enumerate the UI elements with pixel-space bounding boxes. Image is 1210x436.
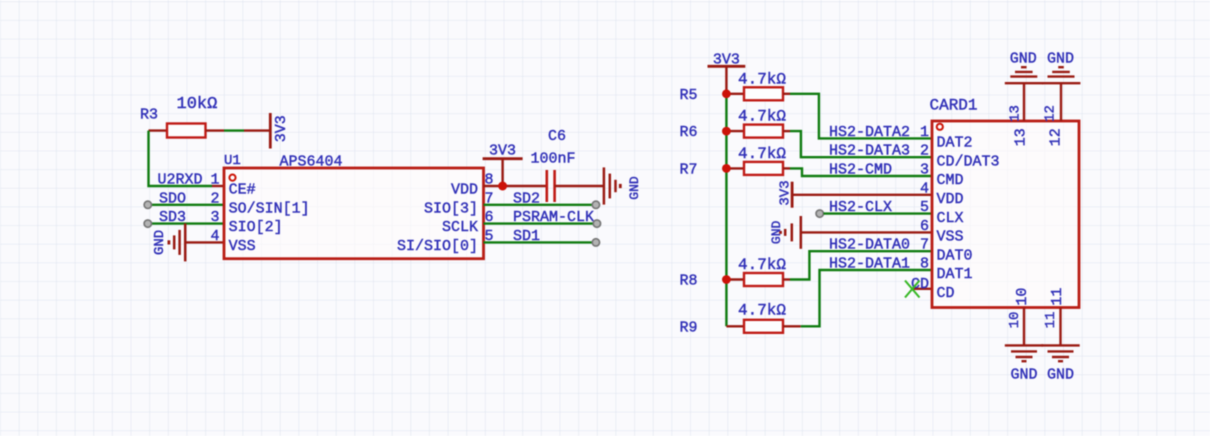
ground symbol below pin 11: [1041, 345, 1079, 383]
svg-text:SIO[3]: SIO[3]: [424, 200, 478, 217]
svg-text:R3: R3: [140, 107, 158, 124]
svg-text:R7: R7: [679, 161, 697, 178]
ground symbol above pin 12 (inverted): [1042, 51, 1080, 84]
svg-text:GND: GND: [627, 176, 642, 200]
svg-text:11: 11: [1043, 312, 1059, 329]
U1 pin number 4: [210, 228, 219, 245]
svg-text:R9: R9: [679, 319, 697, 336]
svg-text:CD/DAT3: CD/DAT3: [937, 153, 1000, 170]
svg-text:10kΩ: 10kΩ: [177, 95, 218, 114]
svg-text:8: 8: [920, 256, 929, 273]
CARD1 pin number 6: [920, 218, 929, 235]
wire CD pin stub: [913, 288, 932, 290]
capacitor C6 plates: [547, 170, 555, 202]
svg-text:12: 12: [1048, 128, 1065, 146]
CARD1 pin name VSS: [937, 229, 964, 246]
svg-text:DAT0: DAT0: [937, 247, 973, 264]
resistor R6 value: [738, 108, 786, 126]
CARD1 pin number 1: [920, 124, 929, 141]
net label U2RXD: [158, 172, 203, 189]
CARD1 pin number 2: [920, 143, 929, 160]
svg-text:4.7kΩ: 4.7kΩ: [738, 145, 786, 163]
svg-text:4: 4: [920, 180, 929, 197]
svg-text:4.7kΩ: 4.7kΩ: [738, 70, 786, 88]
svg-text:2: 2: [210, 190, 219, 207]
CARD1 pin number 11 (rotated): [1043, 312, 1059, 329]
svg-text:R6: R6: [679, 124, 697, 141]
resistor R8 value: [738, 256, 786, 274]
resistor R6 body: [744, 125, 783, 138]
svg-text:2: 2: [920, 143, 929, 160]
wire R6 to HS2-DATA3: [783, 131, 932, 157]
svg-text:CMD: CMD: [937, 172, 964, 189]
svg-text:SI/SIO[0]: SI/SIO[0]: [397, 238, 478, 255]
svg-text:5: 5: [920, 199, 929, 216]
svg-text:CD: CD: [937, 285, 955, 302]
CARD1 pin name 10 inside (rotated): [1014, 288, 1031, 306]
svg-text:CLX: CLX: [937, 210, 964, 227]
resistor R9 value: [738, 302, 786, 320]
svg-text:GND: GND: [1010, 51, 1037, 68]
svg-text:11: 11: [1049, 288, 1066, 306]
resistor R8 designator: [679, 273, 697, 290]
net label SD2: [513, 190, 540, 207]
U1 pin number 5: [485, 228, 494, 245]
U1 pin number 1: [210, 172, 219, 189]
net label HS2-DATA0: [829, 237, 910, 254]
resistor R3 value 10kOhm: [177, 95, 218, 114]
svg-text:3: 3: [920, 162, 929, 179]
resistor R3 designator: [140, 107, 158, 124]
svg-text:3V3: 3V3: [273, 115, 290, 142]
svg-text:GND: GND: [769, 221, 784, 245]
resistor R5 value: [738, 70, 786, 88]
wire R5 to HS2-DATA2: [783, 94, 932, 139]
power port 3V3 top of resistor bus: [708, 51, 746, 93]
svg-text:DAT2: DAT2: [937, 135, 973, 152]
svg-text:13: 13: [1013, 128, 1030, 146]
U1 pin name SO/SIN[1]: [229, 200, 310, 217]
net label HS2-DATA2: [829, 124, 910, 141]
node PSRAM-CLK endpoint: [593, 220, 600, 227]
wire power lead to 3V3 bar: [244, 129, 269, 131]
node SDO endpoint: [144, 201, 151, 208]
svg-text:HS2-DATA2: HS2-DATA2: [829, 124, 910, 141]
svg-text:100nF: 100nF: [531, 150, 576, 167]
net label SD1: [513, 228, 540, 245]
node junction R6: [722, 127, 731, 136]
svg-text:HS2-DATA0: HS2-DATA0: [829, 237, 910, 254]
svg-text:SIO[2]: SIO[2]: [229, 219, 283, 236]
node SD3 endpoint: [144, 220, 151, 227]
CARD1 pin number 4: [920, 180, 929, 197]
CARD1 pin1 indicator circle: [937, 124, 943, 130]
svg-text:C6: C6: [548, 128, 566, 145]
wire bus corner to R9: [726, 325, 744, 327]
svg-text:DAT1: DAT1: [937, 266, 973, 283]
U1 pin number 7: [485, 190, 494, 207]
net label SD3: [159, 209, 186, 226]
resistor R5 designator: [679, 87, 697, 104]
CARD1 bottom pin 10 stub: [1023, 308, 1025, 346]
svg-text:SCLK: SCLK: [442, 219, 478, 236]
CARD1 pin number 7: [920, 237, 929, 254]
U1 pin name CE#: [229, 182, 256, 199]
svg-text:HS2-CMD: HS2-CMD: [829, 162, 892, 179]
node SD2 endpoint: [592, 201, 599, 208]
svg-text:1: 1: [920, 124, 929, 141]
resistor R9 designator: [679, 319, 697, 336]
resistor R7 value: [738, 145, 786, 163]
U1 pin name SIO[3]: [424, 200, 478, 217]
svg-text:CARD1: CARD1: [930, 97, 978, 115]
net label HS2-DATA3: [829, 143, 910, 160]
CARD1 pin number 3: [920, 162, 929, 179]
CARD1 pin name CD/DAT3: [937, 153, 1000, 170]
IC U1 body: [224, 168, 484, 259]
svg-text:10: 10: [1007, 312, 1023, 329]
svg-text:4: 4: [210, 228, 219, 245]
node SD1 endpoint: [592, 239, 599, 246]
wire resistor bus vertical: [725, 94, 727, 326]
svg-text:1: 1: [210, 172, 219, 189]
ground symbol at CARD1 pin6 (rotated left): [769, 216, 801, 249]
resistor R9 body: [744, 320, 783, 333]
U1 pin1 indicator circle: [229, 175, 235, 181]
op-amp U1 designator: [224, 153, 241, 169]
CARD1 pin name VDD: [937, 191, 964, 208]
power port 3V3 at CARD1 pin4 (rotated): [777, 180, 793, 207]
svg-text:HS2-DATA1: HS2-DATA1: [829, 256, 910, 273]
svg-text:3: 3: [210, 209, 219, 226]
wire R9 to HS2-DATA1: [783, 270, 932, 326]
svg-text:GND: GND: [1047, 51, 1074, 68]
CARD1 pin name CD: [937, 285, 955, 302]
wire GND to CARD1 pin6: [801, 231, 932, 233]
U1 pin name SIO[2]: [229, 219, 283, 236]
U1 pin name SI/SIO[0]: [397, 238, 478, 255]
CARD1 pin number 13 (rotated): [1008, 105, 1024, 122]
svg-text:VSS: VSS: [229, 238, 256, 255]
wire HS2-CLX: [824, 212, 933, 214]
wire net U2RXD vertical: [149, 131, 213, 186]
CARD1 pin name DAT0: [937, 247, 973, 264]
CARD1 pin name DAT1: [937, 266, 973, 283]
node junction R5: [722, 89, 731, 98]
wire SDO: [151, 204, 224, 206]
resistor R7 designator: [679, 161, 697, 178]
svg-text:GND: GND: [152, 230, 168, 255]
svg-text:4.7kΩ: 4.7kΩ: [738, 256, 786, 274]
wire R5 left lead: [726, 93, 744, 95]
wire R3 right lead: [206, 129, 225, 131]
wire R7 to HS2-CMD: [783, 168, 932, 176]
CARD1 pin name CLX: [937, 210, 964, 227]
wire PSRAM-CLK: [484, 222, 594, 224]
power port 3V3 above U1 pin8: [483, 142, 523, 186]
wire U1 pin8 power net: [484, 185, 547, 187]
svg-text:HS2-DATA3: HS2-DATA3: [829, 143, 910, 160]
ground symbol above pin 13 (inverted): [1005, 51, 1043, 84]
capacitor C6 designator: [548, 128, 566, 145]
wire C6 to ground: [555, 185, 604, 187]
CARD1 pin name CMD: [937, 172, 964, 189]
resistor R3 body: [167, 124, 206, 138]
wire SD2: [484, 204, 593, 206]
svg-text:12: 12: [1043, 105, 1059, 122]
resistor R5 body: [744, 87, 783, 100]
svg-text:U2RXD: U2RXD: [158, 172, 203, 189]
svg-text:R8: R8: [679, 273, 697, 290]
wire U1 pin1 stub: [212, 185, 224, 187]
node junction R8: [722, 275, 731, 284]
capacitor C6 value 100nF: [531, 150, 576, 167]
ground symbol at U1 pin4 (rotated left): [152, 223, 185, 261]
CARD1 pin number 12 (rotated): [1043, 105, 1059, 122]
node junction R7: [722, 164, 731, 173]
ground symbol below pin 10: [1005, 345, 1043, 383]
connector CARD1 body: [932, 121, 1079, 308]
svg-text:GND: GND: [1010, 366, 1037, 383]
svg-text:3V3: 3V3: [489, 142, 516, 159]
svg-text:4.7kΩ: 4.7kΩ: [738, 108, 786, 126]
wire R7 left lead: [726, 167, 744, 169]
wire R6 left lead: [726, 130, 744, 132]
svg-text:SO/SIN[1]: SO/SIN[1]: [229, 200, 310, 217]
U1 pin name VSS: [229, 238, 256, 255]
no-connect X on CD pin: [905, 281, 920, 298]
CARD1 bottom pin 11 stub: [1059, 308, 1061, 346]
net label CD: [911, 276, 929, 293]
svg-text:U1: U1: [224, 153, 241, 169]
wire R3 left lead: [149, 129, 168, 131]
U1 pin number 2: [210, 190, 219, 207]
U1 pin name SCLK: [442, 219, 478, 236]
CARD1 pin number 8: [920, 256, 929, 273]
net label HS2-CLX: [829, 199, 892, 216]
CARD1 top pin 13 stub: [1023, 84, 1025, 122]
svg-text:VDD: VDD: [451, 182, 478, 199]
resistor R6 designator: [679, 124, 697, 141]
svg-text:VDD: VDD: [937, 191, 964, 208]
CARD1 pin name 12 inside (rotated): [1048, 128, 1065, 146]
CARD1 top pin 12 stub: [1060, 84, 1062, 122]
U1 pin number 6: [485, 209, 494, 226]
svg-text:CE#: CE#: [229, 182, 256, 199]
CARD1 pin number 5: [920, 199, 929, 216]
resistor R8 body: [744, 273, 783, 286]
ground symbol right of C6 (rotated right): [604, 167, 642, 204]
wire SD1: [484, 241, 593, 243]
CARD1 pin name 13 inside (rotated): [1013, 128, 1030, 146]
svg-text:3V3: 3V3: [777, 180, 793, 205]
svg-text:VSS: VSS: [937, 229, 964, 246]
svg-text:10: 10: [1014, 288, 1031, 306]
net label HS2-CMD: [829, 162, 892, 179]
node HS2-CLX endpoint: [816, 210, 823, 217]
wire green segment R3 to 3V3: [224, 129, 244, 131]
U1 part name APS6404: [280, 153, 343, 170]
wire R8 left lead: [726, 278, 744, 280]
wire U1 pin4 to ground: [185, 241, 224, 243]
power port 3V3 (rotated, right of R3): [270, 113, 290, 149]
connector CARD1 designator: [930, 97, 978, 115]
net label PSRAM-CLK: [513, 209, 594, 226]
CARD1 pin number 10 (rotated): [1007, 312, 1023, 329]
net label SDO: [159, 190, 186, 207]
net label HS2-DATA1: [829, 256, 910, 273]
resistor R7 body: [744, 162, 783, 175]
CARD1 pin name 11 inside (rotated): [1049, 288, 1066, 306]
node junction at U1 pin8: [498, 182, 507, 191]
svg-text:R5: R5: [679, 87, 697, 104]
svg-text:4.7kΩ: 4.7kΩ: [738, 302, 786, 320]
U1 pin name VDD: [451, 182, 478, 199]
wire R8 to HS2-DATA0: [783, 251, 932, 279]
svg-text:13: 13: [1008, 105, 1024, 122]
svg-text:GND: GND: [1047, 366, 1074, 383]
wire 3V3 to CARD1 pin4: [792, 194, 932, 196]
svg-text:7: 7: [920, 237, 929, 254]
wire SD3: [151, 222, 224, 224]
U1 pin number 3: [210, 209, 219, 226]
svg-text:6: 6: [920, 218, 929, 235]
U1 pin number 8: [485, 172, 494, 189]
CARD1 pin name DAT2: [937, 135, 973, 152]
